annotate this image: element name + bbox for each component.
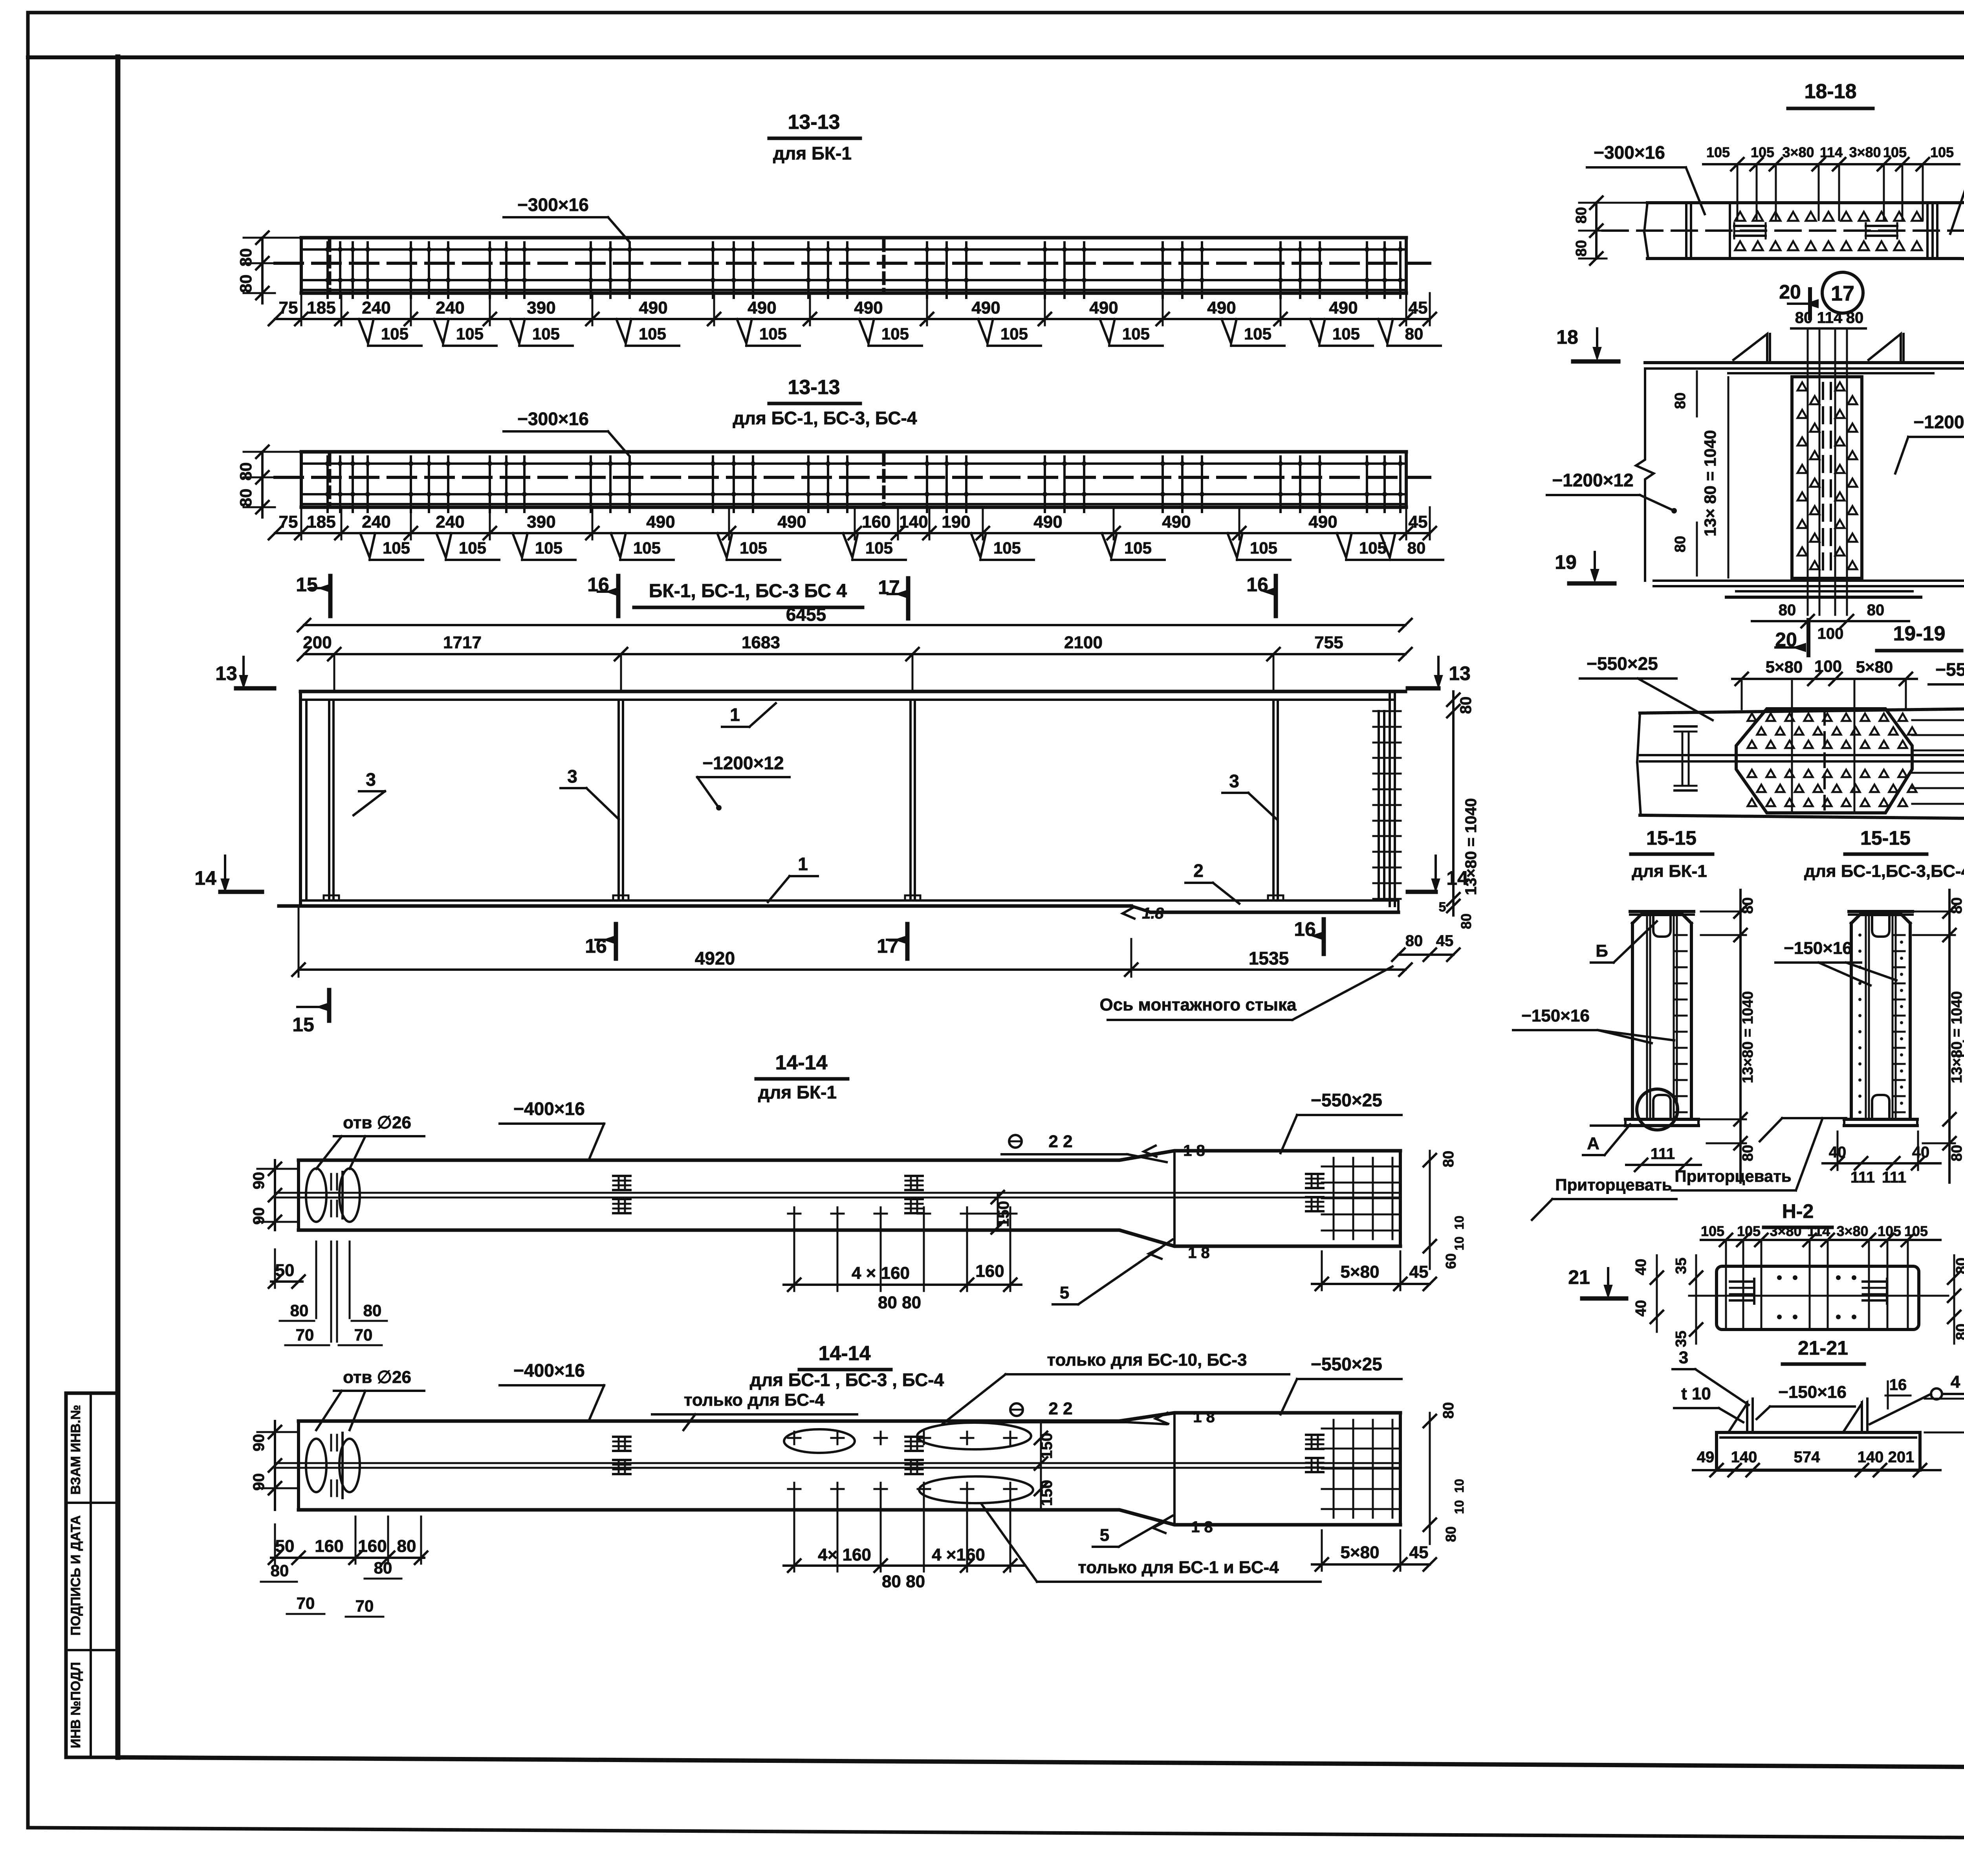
svg-text:только для БС-1 и БС-4: только для БС-1 и БС-4	[1078, 1558, 1279, 1577]
svg-text:40: 40	[1912, 1144, 1930, 1161]
svg-text:Б: Б	[1596, 941, 1608, 961]
svg-text:105: 105	[383, 539, 410, 557]
web centrelines	[275, 1462, 1400, 1464]
svg-text:21: 21	[1568, 1266, 1590, 1288]
svg-text:490: 490	[1089, 298, 1118, 317]
svg-text:2 2: 2 2	[1048, 1399, 1072, 1418]
svg-text:13-13: 13-13	[788, 376, 840, 399]
svg-text:15-15: 15-15	[1646, 827, 1697, 849]
weld flags 105	[360, 533, 375, 557]
svg-text:для БС-1 , БС-3 , БС-4: для БС-1 , БС-3 , БС-4	[750, 1370, 944, 1390]
svg-text:5: 5	[1439, 900, 1446, 915]
svg-text:160: 160	[862, 512, 890, 532]
svg-text:3: 3	[366, 769, 376, 790]
svg-text:70: 70	[354, 1326, 373, 1344]
svg-text:3: 3	[1229, 771, 1239, 791]
svg-text:160: 160	[358, 1537, 387, 1556]
svg-text:−100×10: −100×10	[1962, 1032, 1964, 1051]
svg-text:105: 105	[381, 325, 409, 343]
mid bolt row	[788, 1213, 801, 1215]
web splice plate with bolts	[1792, 377, 1862, 578]
svg-text:105: 105	[740, 539, 767, 557]
weld bolt triangles	[1735, 212, 1745, 221]
splice tick marks	[328, 240, 332, 292]
right splice bolt grid	[1333, 1158, 1335, 1239]
svg-text:490: 490	[854, 298, 883, 317]
svg-text:1 8: 1 8	[1193, 1408, 1215, 1426]
svg-text:−300×16: −300×16	[1594, 142, 1665, 163]
svg-text:49: 49	[1697, 1449, 1715, 1466]
svg-text:5×80: 5×80	[1856, 658, 1893, 676]
svg-text:490: 490	[1207, 298, 1236, 317]
svg-text:Приторцевать: Приторцевать	[1555, 1175, 1672, 1194]
svg-text:80: 80	[1949, 1145, 1964, 1161]
svg-text:Н-2: Н-2	[1782, 1200, 1814, 1222]
outer border	[28, 11, 1964, 15]
plate N-2	[1717, 1266, 1919, 1330]
svg-text:105: 105	[1706, 144, 1730, 160]
svg-text:1.8: 1.8	[1142, 905, 1164, 922]
svg-text:14: 14	[194, 867, 216, 889]
svg-text:80: 80	[1953, 1324, 1964, 1340]
svg-text:80: 80	[1573, 240, 1590, 257]
svg-text:А: А	[1587, 1134, 1599, 1153]
svg-text:5: 5	[1060, 1283, 1069, 1302]
svg-text:только для БС-10, БС-3: только для БС-10, БС-3	[1047, 1350, 1247, 1370]
svg-text:240: 240	[436, 298, 464, 317]
right end splice bolt field	[1389, 691, 1391, 906]
svg-text:185: 185	[307, 512, 335, 532]
svg-text:80: 80	[271, 1561, 289, 1580]
plate centre line	[1689, 1295, 1948, 1297]
svg-text:14-14: 14-14	[775, 1051, 828, 1074]
shear stud rows	[326, 457, 329, 512]
bottom flange	[300, 899, 1398, 902]
svg-text:70: 70	[355, 1597, 374, 1615]
svg-text:80: 80	[236, 275, 255, 293]
left dims 40/40 35/35	[1656, 1255, 1658, 1332]
stud symbols on plate	[1730, 1280, 1754, 1283]
svg-text:t 10: t 10	[1681, 1384, 1711, 1403]
svg-text:40: 40	[1633, 1259, 1649, 1275]
svg-text:−150×16: −150×16	[1521, 1006, 1590, 1025]
svg-text:490: 490	[1329, 298, 1358, 317]
base plate	[1625, 1118, 1698, 1121]
svg-text:150: 150	[1038, 1433, 1055, 1459]
centreline dashed	[1603, 229, 1964, 232]
svg-text:−300×16: −300×16	[517, 194, 589, 215]
svg-text:15: 15	[296, 574, 318, 596]
svg-text:80: 80	[1573, 207, 1590, 224]
svg-text:490: 490	[1162, 512, 1191, 532]
svg-text:240: 240	[362, 512, 390, 532]
svg-text:14: 14	[1446, 867, 1468, 889]
dimension row	[275, 318, 1430, 320]
svg-text:114: 114	[1807, 1223, 1830, 1239]
right side dims 80 / 13x80=1040 / 80	[1452, 691, 1455, 915]
right splice bolt grid	[1333, 1420, 1335, 1518]
bolt triangles 19-19	[1748, 713, 1756, 721]
svg-text:105: 105	[759, 325, 787, 343]
svg-text:90: 90	[250, 1473, 267, 1491]
svg-text:490: 490	[639, 298, 667, 317]
svg-text:18-18: 18-18	[1805, 80, 1857, 103]
slot weld top (open top, round bottom)	[1872, 915, 1889, 937]
cap plate	[1630, 910, 1694, 913]
svg-text:80: 80	[1440, 1151, 1457, 1167]
svg-text:−150×16: −150×16	[1778, 1383, 1847, 1402]
svg-text:−550×25: −550×25	[1587, 653, 1658, 674]
right fan dims	[1912, 719, 1964, 721]
svg-text:80: 80	[1440, 1402, 1457, 1419]
splice tick marks	[328, 454, 332, 506]
svg-text:105: 105	[1904, 1223, 1928, 1239]
svg-text:для БС-1,БС-3,БС-4: для БС-1,БС-3,БС-4	[1804, 862, 1964, 881]
svg-text:45: 45	[1409, 1262, 1429, 1282]
column body	[1851, 915, 1910, 923]
left end dims (2)	[271, 1557, 424, 1559]
top flange lines	[1645, 361, 1964, 364]
flange centreline	[275, 476, 1430, 479]
svg-text:114: 114	[1817, 309, 1843, 326]
svg-text:80: 80	[290, 1301, 309, 1320]
svg-text:45: 45	[1436, 932, 1454, 950]
svg-text:1535: 1535	[1249, 948, 1289, 968]
svg-text:13×80 = 1040: 13×80 = 1040	[1740, 991, 1756, 1084]
left end dims	[271, 1280, 302, 1283]
svg-text:10: 10	[1452, 1479, 1466, 1493]
web edges with break	[1636, 369, 1654, 581]
svg-text:105: 105	[993, 539, 1021, 557]
svg-text:114: 114	[1820, 144, 1843, 160]
svg-text:200: 200	[303, 633, 332, 652]
svg-text:для БК-1: для БК-1	[773, 143, 852, 163]
svg-text:70: 70	[296, 1326, 314, 1344]
stagger dims 80/80 70/70	[315, 1241, 317, 1318]
svg-text:111: 111	[1882, 1169, 1906, 1186]
dimension row	[275, 532, 1430, 534]
bolt holes (slotted) at left end	[306, 1168, 326, 1222]
svg-text:201: 201	[1888, 1449, 1915, 1466]
svg-text:1 8: 1 8	[1183, 1142, 1205, 1159]
svg-text:80: 80	[236, 248, 255, 267]
svg-text:4 × 160: 4 × 160	[852, 1264, 910, 1283]
svg-text:отв ∅26: отв ∅26	[343, 1368, 411, 1387]
svg-text:ИНВ №ПОДЛ: ИНВ №ПОДЛ	[68, 1662, 83, 1748]
svg-text:80: 80	[236, 462, 255, 481]
svg-text:105: 105	[1883, 144, 1907, 160]
bottom cover plate step	[1131, 906, 1151, 912]
svg-text:80: 80	[1443, 1526, 1459, 1542]
shear stud rows	[326, 242, 329, 298]
svg-text:80: 80	[1779, 601, 1796, 619]
svg-text:только для БС-4: только для БС-4	[684, 1390, 825, 1410]
cap plate	[1849, 910, 1913, 913]
svg-text:80: 80	[1953, 1258, 1964, 1274]
svg-text:80: 80	[1405, 932, 1423, 950]
svg-text:80 80: 80 80	[882, 1572, 925, 1591]
svg-text:240: 240	[362, 298, 390, 317]
svg-text:16: 16	[1294, 918, 1316, 940]
svg-text:5: 5	[1100, 1526, 1109, 1545]
svg-text:−300×16: −300×16	[517, 409, 589, 429]
svg-text:13: 13	[1449, 662, 1471, 684]
svg-text:105: 105	[1878, 1223, 1901, 1239]
svg-text:16: 16	[1889, 1376, 1907, 1394]
svg-text:−400×16: −400×16	[513, 1098, 585, 1119]
bottom dims 49/140/574/140/201	[1693, 1469, 1940, 1471]
right grid dims 5x80 / 45	[1312, 1283, 1430, 1285]
svg-text:80: 80	[1672, 536, 1689, 552]
svg-text:490: 490	[777, 512, 806, 532]
bottom dims 40/40 111 111	[1823, 1162, 1940, 1164]
svg-text:4 ×160: 4 ×160	[932, 1545, 985, 1564]
bottom flange lines	[1654, 579, 1964, 582]
right dim 13x80=1040 (15-15 BK1)	[1739, 890, 1742, 1183]
svg-text:70: 70	[297, 1594, 315, 1612]
svg-text:14-14: 14-14	[819, 1342, 871, 1365]
svg-text:185: 185	[307, 298, 335, 317]
left 90/90 dims	[274, 1160, 276, 1230]
mid bolt rows (2)	[788, 1437, 801, 1439]
svg-text:3: 3	[1679, 1348, 1688, 1367]
svg-text:105: 105	[633, 539, 661, 557]
svg-text:80: 80	[1846, 309, 1864, 326]
flange plate -400x16 outline	[299, 1413, 1400, 1421]
ground line + 111 dim	[1591, 1124, 1627, 1127]
svg-text:21-21: 21-21	[1798, 1337, 1848, 1359]
svg-text:1717: 1717	[443, 633, 482, 652]
svg-text:755: 755	[1314, 633, 1343, 652]
svg-text:80: 80	[374, 1559, 392, 1577]
svg-text:5×80: 5×80	[1766, 658, 1803, 676]
bolt dots	[1777, 1275, 1782, 1280]
svg-text:150: 150	[1038, 1480, 1055, 1506]
svg-text:80: 80	[1867, 601, 1885, 619]
svg-text:35: 35	[1673, 1331, 1689, 1347]
svg-text:5×80: 5×80	[1340, 1543, 1379, 1562]
svg-text:−400×16: −400×16	[513, 1360, 585, 1381]
svg-text:80: 80	[1457, 697, 1475, 714]
beam outline 18-18	[1647, 196, 1964, 203]
svg-text:1: 1	[730, 704, 740, 725]
svg-text:4× 160: 4× 160	[818, 1545, 871, 1564]
svg-text:100: 100	[1817, 625, 1844, 642]
svg-text:2: 2	[1193, 860, 1204, 881]
dims over splice	[1703, 163, 1959, 165]
left 80/80 dims	[261, 452, 264, 517]
svg-text:3×80: 3×80	[1782, 144, 1814, 160]
bottom mid dims 4x160 4x160	[784, 1564, 1025, 1567]
overall dimension 6455	[304, 624, 1405, 626]
svg-text:50: 50	[275, 1537, 295, 1556]
left 80/80 dims 18-18	[1595, 203, 1598, 259]
svg-text:105: 105	[456, 325, 484, 343]
bottom mid dims 4x160 / 160	[784, 1284, 1021, 1286]
svg-text:3×80: 3×80	[1770, 1223, 1801, 1239]
top flange plate -300x16	[301, 450, 1406, 454]
svg-text:1683: 1683	[742, 633, 780, 652]
svg-text:490: 490	[646, 512, 675, 532]
svg-text:111: 111	[1651, 1145, 1675, 1163]
svg-text:для БК-1: для БК-1	[1632, 862, 1707, 881]
flange outline 19-19	[1640, 708, 1964, 713]
svg-text:490: 490	[1033, 512, 1062, 532]
svg-text:105: 105	[1000, 325, 1028, 343]
extension lines	[300, 507, 302, 539]
svg-text:105: 105	[881, 325, 909, 343]
inner web lines	[1646, 915, 1648, 1119]
svg-text:105: 105	[459, 539, 486, 557]
dims 80 114 80 over gussets	[1791, 327, 1866, 330]
flange centreline	[275, 262, 1430, 265]
svg-text:140: 140	[899, 512, 928, 532]
svg-text:17: 17	[877, 935, 899, 957]
svg-text:75: 75	[279, 298, 298, 317]
svg-text:80: 80	[1407, 539, 1426, 557]
svg-text:17: 17	[1831, 282, 1854, 305]
vertical bolt lines	[1791, 681, 1793, 813]
svg-text:105: 105	[1751, 144, 1774, 160]
svg-text:105: 105	[1930, 144, 1954, 160]
svg-text:90: 90	[250, 1172, 267, 1190]
svg-text:−550×25: −550×25	[1935, 659, 1964, 680]
bolt column lines	[1807, 328, 1809, 615]
octagonal splice plate	[1736, 709, 1912, 813]
svg-text:10: 10	[1452, 1500, 1466, 1514]
svg-text:для БК-1: для БК-1	[758, 1082, 837, 1102]
base plate	[1844, 1118, 1917, 1121]
left end plate	[299, 691, 302, 906]
svg-text:1 8: 1 8	[1188, 1244, 1210, 1262]
svg-text:20: 20	[1779, 281, 1801, 303]
svg-text:75: 75	[279, 512, 298, 532]
svg-text:13× 80 = 1040: 13× 80 = 1040	[1701, 430, 1719, 537]
svg-text:105: 105	[1124, 539, 1152, 557]
svg-text:105: 105	[1737, 1223, 1761, 1239]
stiffener right with gusset	[1861, 1402, 1863, 1432]
bolt holes (slotted) at left end	[306, 1439, 326, 1492]
svg-text:−550×25: −550×25	[1311, 1090, 1382, 1110]
dim 150 rotated	[997, 1194, 999, 1230]
svg-text:19-19: 19-19	[1893, 622, 1946, 645]
svg-text:90: 90	[250, 1207, 267, 1225]
svg-text:6455: 6455	[786, 604, 826, 625]
svg-text:13: 13	[215, 662, 237, 684]
bottom dimension 4920/1535	[299, 968, 1405, 971]
svg-text:−1200×12: −1200×12	[1913, 412, 1964, 432]
dims over N-2	[1701, 1239, 1940, 1241]
svg-text:для БС-1, БС-3, БС-4: для БС-1, БС-3, БС-4	[733, 408, 917, 428]
svg-text:3: 3	[567, 766, 577, 787]
svg-text:40: 40	[1633, 1300, 1649, 1317]
svg-text:1: 1	[798, 854, 808, 874]
stiffener symbols	[613, 1175, 630, 1177]
web stiffeners	[328, 700, 330, 900]
stiffener section symbols	[1734, 225, 1766, 227]
svg-text:60: 60	[1443, 1253, 1459, 1269]
svg-text:490: 490	[1308, 512, 1337, 532]
svg-text:80: 80	[1458, 913, 1474, 929]
svg-text:100: 100	[1814, 657, 1842, 675]
svg-text:240: 240	[436, 512, 464, 532]
svg-text:490: 490	[747, 298, 776, 317]
svg-text:2 2: 2 2	[1048, 1132, 1072, 1151]
svg-text:80: 80	[1740, 1145, 1756, 1161]
right dim (15-15 BS)	[1948, 890, 1951, 1183]
dim 150/150 rotated	[1040, 1421, 1042, 1510]
svg-text:105: 105	[1701, 1223, 1724, 1239]
svg-text:ВЗАМ ИНВ.№: ВЗАМ ИНВ.№	[68, 1405, 83, 1495]
I stiffener symbol	[1675, 725, 1697, 728]
slot weld top (open top, round bottom)	[1653, 915, 1671, 937]
svg-text:80: 80	[363, 1301, 382, 1320]
svg-text:105: 105	[1244, 325, 1271, 343]
svg-text:10: 10	[1452, 1216, 1466, 1230]
svg-text:13-13: 13-13	[788, 111, 840, 134]
circled 17	[1822, 272, 1863, 313]
svg-text:3×80: 3×80	[1849, 144, 1881, 160]
left 80/80 dims	[261, 238, 264, 303]
svg-text:3×80: 3×80	[1836, 1223, 1868, 1239]
svg-text:390: 390	[527, 298, 555, 317]
svg-text:105: 105	[1332, 325, 1360, 343]
svg-text:490: 490	[971, 298, 1000, 317]
svg-text:Приторцевать: Приторцевать	[1675, 1167, 1791, 1185]
svg-text:140: 140	[1858, 1449, 1884, 1466]
left 90/90 dims (2)	[274, 1421, 276, 1510]
svg-text:105: 105	[639, 325, 666, 343]
inner frame	[115, 57, 121, 1757]
svg-text:19: 19	[1555, 551, 1577, 573]
svg-text:10: 10	[1452, 1236, 1466, 1251]
svg-text:4: 4	[1951, 1372, 1960, 1392]
svg-text:БК-1, БС-1, БС-3 БС 4: БК-1, БС-1, БС-3 БС 4	[649, 581, 847, 601]
svg-text:574: 574	[1794, 1449, 1820, 1466]
svg-text:80: 80	[1672, 392, 1689, 409]
svg-text:18: 18	[1556, 326, 1578, 348]
inner web lines	[1865, 915, 1867, 1119]
svg-text:5×80: 5×80	[1340, 1262, 1379, 1282]
svg-text:80: 80	[397, 1537, 416, 1556]
top dimension row 200/1717/1683/2100/755	[304, 653, 1405, 655]
bottom dims 80 100 80	[1752, 620, 1909, 622]
svg-text:190: 190	[942, 512, 970, 532]
svg-text:111: 111	[1850, 1169, 1875, 1186]
stiffener left with gusset	[1746, 1402, 1748, 1432]
base plate side view	[1717, 1431, 1920, 1434]
svg-text:160: 160	[975, 1262, 1004, 1281]
splice plate verticals	[1685, 204, 1687, 257]
right dims 80/80	[1953, 1255, 1955, 1344]
bolt group ovals	[784, 1429, 855, 1453]
svg-text:отв ∅26: отв ∅26	[343, 1113, 411, 1132]
web centrelines	[275, 1192, 1400, 1194]
svg-text:105: 105	[1250, 539, 1277, 557]
svg-text:45: 45	[1409, 1543, 1429, 1562]
dims 5x80 100 5x80	[1732, 678, 1917, 680]
svg-text:80: 80	[1405, 325, 1424, 343]
extension lines	[300, 293, 302, 325]
svg-text:80 80: 80 80	[878, 1293, 921, 1312]
svg-text:45: 45	[1409, 298, 1428, 317]
svg-text:−1200×12: −1200×12	[702, 753, 784, 773]
svg-text:105: 105	[1122, 325, 1150, 343]
stiffener symbols	[613, 1436, 630, 1438]
svg-text:390: 390	[527, 512, 555, 532]
svg-text:45: 45	[1409, 512, 1428, 532]
svg-text:1 8: 1 8	[1191, 1518, 1213, 1536]
